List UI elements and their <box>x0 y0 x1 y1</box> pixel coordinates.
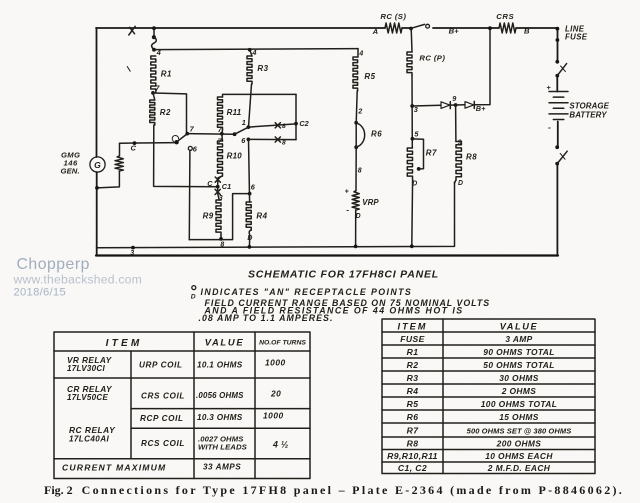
wire R9 bottom loop <box>189 194 249 240</box>
left table frame <box>54 332 310 479</box>
svg-text:1: 1 <box>242 118 246 127</box>
wire VRP to D-line <box>355 210 357 246</box>
svg-text:+: + <box>345 188 349 195</box>
junction VRP at D-line <box>354 245 358 249</box>
right table row lines <box>382 332 595 462</box>
wire D-line (bottom common to D nodes) <box>97 182 455 248</box>
svg-text:20: 20 <box>270 389 281 399</box>
left table row lines <box>54 351 310 459</box>
svg-text:Fig. 2 Connections for Type: Fig. 2 Connections for Type 17FH8 panel … <box>44 483 624 497</box>
svg-text:R11: R11 <box>227 108 242 117</box>
svg-text:ITEM: ITEM <box>106 338 143 349</box>
svg-text:30 OHMS: 30 OHMS <box>499 373 539 383</box>
junction B+ on top rail <box>488 26 492 30</box>
svg-text:C1: C1 <box>222 182 231 191</box>
wire R4 bottom to D-line <box>249 230 251 247</box>
svg-text:D: D <box>412 180 417 187</box>
wire R8 bottom to D-line corner <box>455 180 457 183</box>
node 5 <box>411 137 415 141</box>
connection X mark on top rail <box>129 26 135 35</box>
node C2 <box>294 122 298 126</box>
wire C1 to R9 top <box>218 194 220 200</box>
svg-text:2018/6/15: 2018/6/15 <box>14 287 66 299</box>
wire R9 bottom to loop <box>220 235 222 239</box>
svg-text:WITH LEADS: WITH LEADS <box>198 443 248 452</box>
svg-text:RC (S): RC (S) <box>380 12 406 21</box>
svg-text:VALUE: VALUE <box>500 322 538 332</box>
svg-text:R9,R10,R11: R9,R10,R11 <box>387 451 438 461</box>
node 9 <box>454 103 458 107</box>
wire R11 top to C2 column <box>223 94 297 97</box>
svg-text:GEN.: GEN. <box>61 167 80 176</box>
right table column line <box>442 319 444 474</box>
svg-text:R6: R6 <box>371 129 382 138</box>
svg-text:URP COIL: URP COIL <box>139 361 183 370</box>
knife switch upper <box>555 60 559 64</box>
svg-text:C2: C2 <box>299 119 308 128</box>
svg-text:17LC40AI: 17LC40AI <box>69 435 109 444</box>
svg-text:3 AMP: 3 AMP <box>505 334 532 344</box>
resistor R3 <box>250 50 252 56</box>
resistor R11 <box>218 97 223 130</box>
svg-text:D: D <box>191 293 196 300</box>
svg-text:A: A <box>372 27 378 36</box>
coil CRS <box>499 23 516 33</box>
node 4 (left) <box>152 48 156 52</box>
svg-text:CURRENT MAXIMUM: CURRENT MAXIMUM <box>62 463 166 473</box>
wire C2 column vertical <box>295 94 297 139</box>
node 3 <box>410 104 414 108</box>
svg-text:R1: R1 <box>161 70 172 79</box>
svg-text:RCS COIL: RCS COIL <box>141 439 185 448</box>
diode D2 <box>456 104 465 106</box>
node 6 of contact row <box>247 138 251 142</box>
rheostat R7 <box>407 148 412 179</box>
svg-text:CRS: CRS <box>496 12 514 21</box>
svg-text:1000: 1000 <box>263 411 284 421</box>
junction node 6 above R4 <box>248 192 252 196</box>
legend receptacle symbol <box>192 286 196 290</box>
rheostat R6 arc element <box>354 121 358 125</box>
resistor R4 <box>246 202 251 230</box>
svg-text:C: C <box>131 144 137 153</box>
svg-text:R2: R2 <box>160 108 171 117</box>
wire node C horizontal <box>120 142 177 145</box>
junction R4 at D-line <box>248 245 252 249</box>
svg-text:R2: R2 <box>407 360 419 370</box>
right table frame <box>382 319 595 474</box>
resistor R9 <box>216 200 221 235</box>
svg-text:.0056 OHMS: .0056 OHMS <box>196 391 244 400</box>
knife switch lower <box>555 145 559 149</box>
wire shunt bottom to left rail junction <box>97 171 119 188</box>
svg-text:R7: R7 <box>426 148 437 157</box>
svg-text:STORAGE: STORAGE <box>569 102 609 111</box>
wire contact down to RC(P) <box>410 29 413 53</box>
wire left rail <box>96 28 98 256</box>
junction R7 at D-line <box>410 244 414 248</box>
svg-text:3: 3 <box>130 250 134 257</box>
svg-text:33 AMPS: 33 AMPS <box>203 463 241 472</box>
svg-text:R8: R8 <box>466 153 477 162</box>
svg-text:8: 8 <box>282 140 286 147</box>
wire R5 to R6 <box>356 91 357 123</box>
svg-text:ITEM: ITEM <box>398 322 428 332</box>
junction C1 node <box>216 185 220 189</box>
capacitor C1 lower plate X <box>215 189 220 194</box>
svg-text:CRS COIL: CRS COIL <box>141 392 185 401</box>
junction R11/R10 node 7 <box>220 132 224 136</box>
wire top rail <box>96 27 558 29</box>
resistor R2 <box>153 93 155 100</box>
svg-text:R4: R4 <box>256 212 267 221</box>
wire R6 to VRP <box>355 147 357 191</box>
contact C pivot <box>174 140 178 144</box>
svg-text:R6: R6 <box>407 412 419 422</box>
resistor R10 <box>221 134 224 141</box>
receptacle point 6 below node 7 <box>188 146 192 150</box>
contact arm to node 1 <box>233 132 237 136</box>
svg-text:R10: R10 <box>227 151 243 160</box>
svg-text:15 OHMS: 15 OHMS <box>499 412 539 422</box>
contact line node 6 to C2 column with X mark 8 <box>248 138 296 140</box>
svg-text:R5: R5 <box>364 72 375 81</box>
svg-text:90 OHMS TOTAL: 90 OHMS TOTAL <box>483 347 554 357</box>
svg-text:C: C <box>207 179 213 188</box>
node 7 contact junction <box>185 132 189 136</box>
svg-text:Chopperp: Chopperp <box>17 256 90 273</box>
svg-text:B+: B+ <box>449 27 459 36</box>
svg-text:-: - <box>548 122 551 132</box>
R7 tap loop <box>412 139 423 169</box>
resistor R8 <box>456 142 461 181</box>
node C <box>133 141 137 145</box>
left table column lines <box>131 332 255 479</box>
wire node 6 column down to R4 <box>249 139 250 202</box>
wire diode D1 to node 9 <box>450 104 455 106</box>
svg-text:INDICATES "AN" RECEPTACLE P: INDICATES "AN" RECEPTACLE POINTS <box>201 287 413 297</box>
wire bottom rail <box>96 254 558 256</box>
resistor R5 <box>357 49 359 57</box>
svg-text:D: D <box>458 180 463 187</box>
svg-text:RC (P): RC (P) <box>419 53 445 62</box>
svg-text:100 OHMS TOTAL: 100 OHMS TOTAL <box>481 399 558 409</box>
svg-text:2: 2 <box>357 108 362 115</box>
wire R2 bottom lead down and right to capacitor C1 <box>154 125 218 187</box>
svg-text:R3: R3 <box>407 373 419 383</box>
svg-text:B: B <box>524 26 530 35</box>
svg-text:RC RELAY: RC RELAY <box>69 425 116 435</box>
node 7 (R1/R2 junction) <box>151 91 155 95</box>
node 1 <box>247 125 251 129</box>
wire generator output to node C line <box>119 143 121 156</box>
wire R3 bottom to node 1 <box>249 84 252 127</box>
wire receptacle 6 down to R9 loop <box>188 150 191 239</box>
svg-text:C1, C2: C1, C2 <box>398 463 427 473</box>
svg-text:17LV30CI: 17LV30CI <box>67 364 105 373</box>
resistor shunt at generator <box>115 156 123 171</box>
svg-text:200 OHMS: 200 OHMS <box>496 439 542 449</box>
coil RC(S) <box>385 23 402 33</box>
resistor R1 <box>151 56 156 92</box>
junction node 4 (right) on node-4 line <box>248 48 252 52</box>
svg-text:8: 8 <box>282 123 286 130</box>
svg-text:4 ½: 4 ½ <box>272 440 289 450</box>
svg-text:-: - <box>346 205 349 214</box>
svg-text:10 OHMS EACH: 10 OHMS EACH <box>485 451 553 461</box>
stray tick <box>127 67 130 72</box>
svg-text:R4: R4 <box>407 386 419 396</box>
wire RC(P) to node 3 <box>411 76 413 149</box>
svg-text:R1: R1 <box>407 347 419 357</box>
svg-text:1000: 1000 <box>265 358 286 368</box>
svg-text:SCHEMATIC FOR 17FH8CI PANEL: SCHEMATIC FOR 17FH8CI PANEL <box>248 269 439 281</box>
svg-text:NO.OF TURNS: NO.OF TURNS <box>259 340 306 347</box>
svg-text:VALUE: VALUE <box>205 337 245 348</box>
wire R7 bottom to D-line <box>411 179 414 246</box>
diode D1 <box>441 102 450 109</box>
svg-text:B+: B+ <box>476 104 486 113</box>
svg-text:VRP: VRP <box>362 198 379 207</box>
flexible lead from rail to node 4 <box>153 28 155 36</box>
svg-text:.08 AMP TO 1.1 AMPERES.: .08 AMP TO 1.1 AMPERES. <box>199 313 334 323</box>
svg-text:www.thebackshed.com: www.thebackshed.com <box>13 273 142 287</box>
svg-text:R8: R8 <box>407 439 419 449</box>
wire right rail (battery branch) <box>556 28 559 256</box>
junction at generator negative lead <box>95 186 99 190</box>
svg-text:2 M.F.D. EACH: 2 M.F.D. EACH <box>487 463 551 473</box>
wire node 7 to contact arm column <box>153 93 186 134</box>
contact at RC(S) <box>409 27 413 31</box>
line fuse <box>556 27 560 31</box>
wire node 4 to R5 top <box>154 49 358 50</box>
svg-text:10.1 OHMS: 10.1 OHMS <box>197 361 243 370</box>
svg-text:4: 4 <box>358 50 363 57</box>
svg-text:D: D <box>247 235 252 242</box>
svg-text:50 OHMS TOTAL: 50 OHMS TOTAL <box>483 360 554 370</box>
junction of R1 branch on top rail <box>152 26 156 30</box>
wire centre row node7 to contact at node 1 <box>187 133 234 136</box>
svg-text:R9: R9 <box>203 212 214 221</box>
generator G (GMG 146 GEN.) <box>90 157 105 172</box>
wire diode D2 to top rail junction <box>474 28 490 105</box>
svg-text:10.3 OHMS: 10.3 OHMS <box>197 413 243 422</box>
svg-text:FUSE: FUSE <box>565 33 588 42</box>
node 3 junction on D-line <box>131 246 135 250</box>
svg-text:FUSE: FUSE <box>400 334 425 344</box>
wire node 3 to diode D1 <box>412 104 441 107</box>
svg-text:R7: R7 <box>407 426 420 436</box>
capacitor C1 upper plate X <box>218 176 222 178</box>
contact line node 1 to C2 with X mark 8 <box>248 124 296 127</box>
svg-text:G: G <box>94 160 101 170</box>
svg-text:8: 8 <box>220 241 224 248</box>
svg-text:R3: R3 <box>257 64 268 73</box>
svg-text:17LV50CE: 17LV50CE <box>67 393 108 402</box>
svg-text:500 OHMS SET @ 380 OHMS: 500 OHMS SET @ 380 OHMS <box>467 427 572 436</box>
svg-text:BATTERY: BATTERY <box>569 111 607 120</box>
svg-text:8: 8 <box>358 168 362 175</box>
svg-text:2 OHMS: 2 OHMS <box>501 386 537 396</box>
svg-text:RCP COIL: RCP COIL <box>140 414 184 423</box>
coil RC(P) <box>407 52 412 76</box>
wire node 9 down to R8 <box>455 105 457 142</box>
svg-text:R5: R5 <box>407 399 419 409</box>
